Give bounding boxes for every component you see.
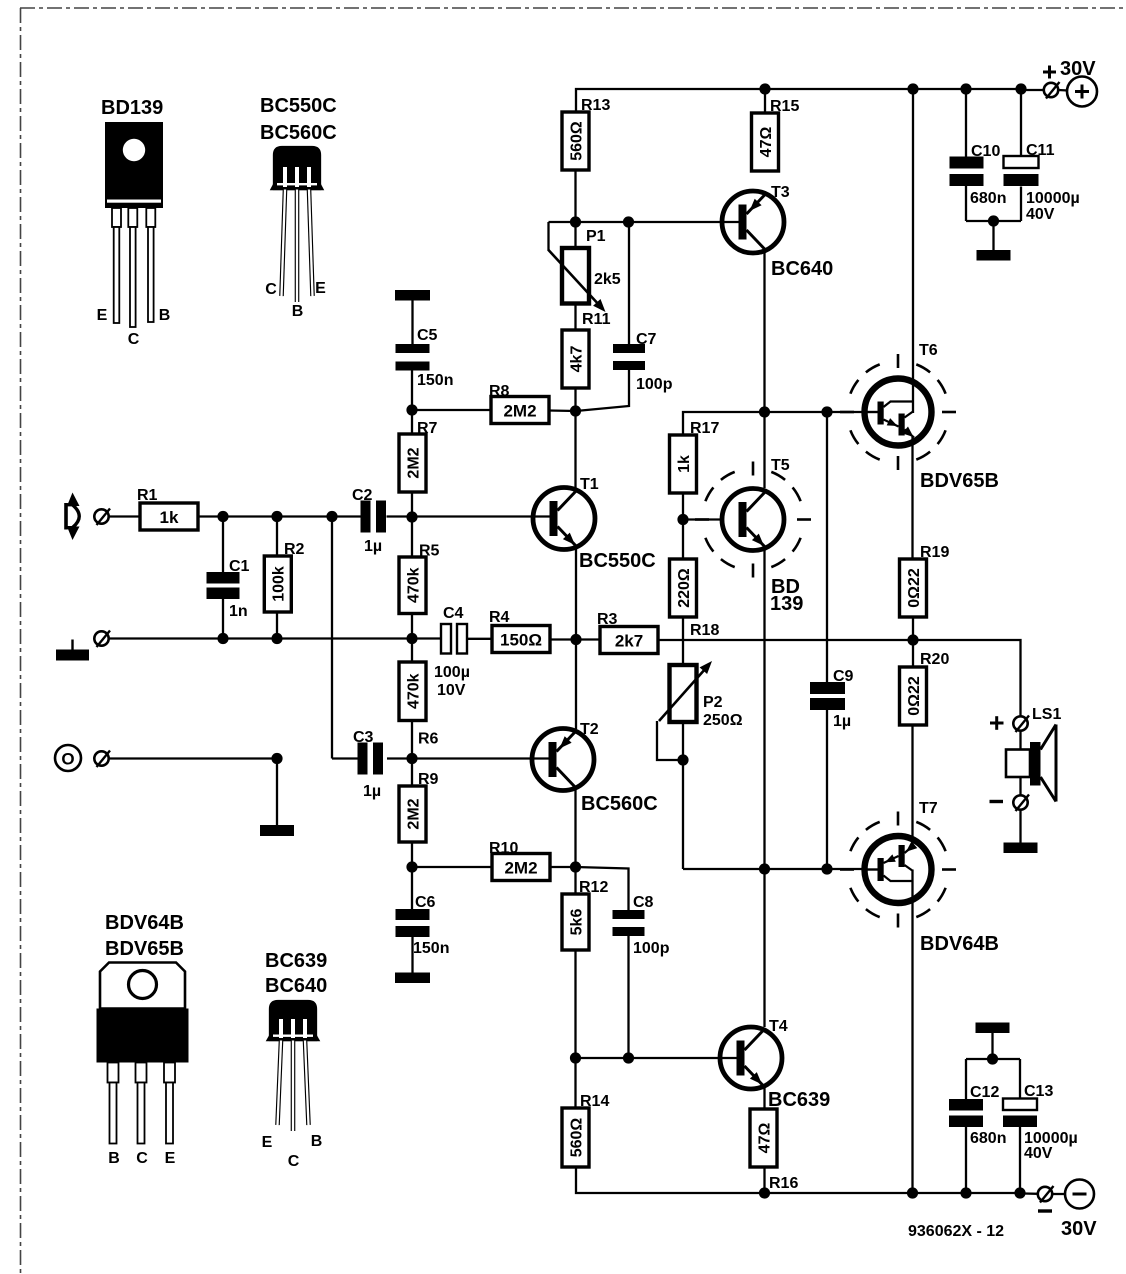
svg-text:936062X - 12: 936062X - 12 bbox=[908, 1223, 1004, 1240]
wire C5 to R7/R8 node bbox=[406, 371, 491, 435]
svg-text:BC640: BC640 bbox=[771, 258, 833, 280]
resistor R11 bbox=[562, 311, 611, 388]
capacitor C5 bbox=[396, 327, 454, 389]
capacitor C13 bbox=[1003, 1083, 1078, 1162]
terminal O output bbox=[94, 751, 110, 768]
svg-text:P2: P2 bbox=[703, 694, 723, 711]
wire R12 to T4 base row bbox=[570, 936, 737, 1108]
ground (O terminal) bbox=[260, 825, 294, 836]
svg-text:R12: R12 bbox=[579, 879, 608, 896]
wire T4 emitter to R16 bbox=[763, 1086, 765, 1109]
svg-text:0Ω22: 0Ω22 bbox=[906, 676, 923, 716]
resistor R2 bbox=[264, 541, 304, 612]
svg-text:C6: C6 bbox=[415, 894, 436, 911]
svg-text:47Ω: 47Ω bbox=[756, 1123, 773, 1154]
trimmer P1 bbox=[549, 228, 621, 312]
BC550C package leg C bbox=[282, 190, 286, 297]
wire R4 to R3 and T1/T2 emitters bbox=[550, 549, 600, 729]
wire O row bbox=[109, 753, 283, 825]
svg-text:5k6: 5k6 bbox=[568, 909, 585, 936]
svg-text:1µ: 1µ bbox=[833, 713, 851, 730]
wire C3 row bbox=[332, 721, 549, 787]
svg-text:B: B bbox=[311, 1133, 323, 1150]
transistor T2 bbox=[532, 721, 658, 815]
BDV64B pin label E bbox=[165, 1150, 176, 1167]
svg-text:560Ω: 560Ω bbox=[568, 121, 585, 161]
label 30V (top) bbox=[1060, 58, 1096, 80]
ground (C10/C11) bbox=[977, 250, 1011, 261]
svg-text:100p: 100p bbox=[636, 376, 673, 393]
capacitor C4 bbox=[434, 605, 470, 699]
BC639 package leg C bbox=[291, 1041, 296, 1132]
resistor R13 bbox=[562, 97, 610, 170]
svg-text:1µ: 1µ bbox=[364, 538, 382, 555]
svg-text:R13: R13 bbox=[581, 97, 610, 114]
svg-text:T1: T1 bbox=[580, 476, 599, 493]
svg-text:BDV65B: BDV65B bbox=[105, 938, 184, 960]
svg-text:T5: T5 bbox=[771, 457, 790, 474]
svg-text:BC639: BC639 bbox=[265, 950, 327, 972]
svg-text:R19: R19 bbox=[920, 544, 949, 561]
wire speaker to - terminal bbox=[1019, 777, 1021, 796]
svg-text:T7: T7 bbox=[919, 800, 938, 817]
wire R7 to T1 base node bbox=[387, 492, 551, 557]
svg-text:BC560C: BC560C bbox=[581, 793, 658, 815]
transistor T3 bbox=[722, 184, 833, 280]
svg-text:BDV65B: BDV65B bbox=[920, 470, 999, 492]
svg-text:220Ω: 220Ω bbox=[676, 568, 693, 608]
wire R13 to P1 node bbox=[549, 170, 740, 251]
svg-text:1µ: 1µ bbox=[363, 783, 381, 800]
BD139 pin label E bbox=[97, 307, 108, 324]
svg-text:10V: 10V bbox=[437, 682, 466, 699]
resistor R5 bbox=[399, 543, 440, 614]
terminal LS1 - bbox=[1013, 795, 1029, 812]
resistor R6 bbox=[399, 662, 439, 748]
svg-text:10000µ: 10000µ bbox=[1026, 190, 1080, 207]
svg-text:E: E bbox=[262, 1134, 273, 1151]
BC550C/BC560C package body bbox=[271, 147, 323, 190]
svg-text:150Ω: 150Ω bbox=[500, 630, 542, 649]
BC560C package title bbox=[260, 122, 337, 144]
battery symbol -30V bbox=[1065, 1180, 1094, 1209]
svg-text:BC550C: BC550C bbox=[260, 95, 337, 117]
BDV64B package leg 1 bbox=[108, 1063, 119, 1144]
svg-text:R7: R7 bbox=[417, 420, 438, 437]
svg-text:C5: C5 bbox=[417, 327, 438, 344]
resistor R14 bbox=[562, 1093, 609, 1167]
svg-text:2M2: 2M2 bbox=[503, 401, 536, 420]
label 936062X - 12 bbox=[908, 1223, 1004, 1240]
BDV64B package leg 3 bbox=[164, 1063, 175, 1144]
terminal input bbox=[94, 509, 110, 526]
svg-text:C8: C8 bbox=[633, 894, 654, 911]
BD139 pin label B bbox=[159, 307, 171, 324]
svg-text:680n: 680n bbox=[970, 1130, 1006, 1147]
svg-text:BC550C: BC550C bbox=[579, 550, 656, 572]
BC550C package leg E bbox=[309, 190, 313, 297]
wire C10/C11 to ground bbox=[966, 186, 1021, 250]
capacitor C2 bbox=[352, 487, 386, 555]
capacitor C7 bbox=[613, 331, 673, 393]
BDV64B package leg 2 bbox=[136, 1063, 147, 1144]
resistor R18 bbox=[670, 559, 720, 639]
svg-text:C12: C12 bbox=[970, 1084, 999, 1101]
resistor R3 bbox=[597, 611, 658, 654]
BC639 pin label E bbox=[262, 1134, 273, 1151]
svg-text:R17: R17 bbox=[690, 420, 719, 437]
wire R19 to R20 bbox=[912, 617, 914, 667]
svg-text:E: E bbox=[165, 1150, 176, 1167]
ground (C5 top) bbox=[395, 290, 430, 344]
transistor T7 (darlington) bbox=[865, 800, 999, 955]
BDV64B pin label C bbox=[136, 1150, 148, 1167]
BD139 package body bbox=[105, 122, 163, 208]
wire output row bbox=[658, 634, 1021, 716]
svg-text:BD139: BD139 bbox=[101, 97, 163, 119]
wire lower base row (T7 base) bbox=[683, 548, 865, 1027]
terminal input ground bbox=[94, 631, 110, 648]
ground (C12/C13) bbox=[976, 1023, 1010, 1060]
svg-text:2M2: 2M2 bbox=[405, 447, 422, 478]
svg-text:C4: C4 bbox=[443, 605, 464, 622]
BC639 package title bbox=[265, 950, 327, 972]
transistor T6 heatsink ring bbox=[840, 354, 956, 470]
BC550C pin label C bbox=[265, 281, 277, 298]
svg-text:T6: T6 bbox=[919, 342, 938, 359]
svg-text:B: B bbox=[292, 303, 304, 320]
svg-text:R6: R6 bbox=[418, 731, 439, 748]
svg-text:BDV64B: BDV64B bbox=[920, 933, 999, 955]
svg-text:2k7: 2k7 bbox=[615, 631, 643, 650]
svg-text:2M2: 2M2 bbox=[405, 798, 422, 829]
wire driver base row (T6 base) bbox=[683, 406, 865, 682]
ground (input) bbox=[56, 640, 89, 661]
BC639 pin label C bbox=[288, 1153, 300, 1170]
svg-text:40V: 40V bbox=[1024, 1145, 1053, 1162]
transistor T5 bbox=[722, 457, 803, 615]
BC639/BC640 package body bbox=[267, 1001, 319, 1041]
label + (LS1) bbox=[990, 716, 1004, 730]
resistor R1 bbox=[137, 487, 198, 530]
svg-text:R20: R20 bbox=[920, 651, 949, 668]
wire C12/C13 top node bbox=[966, 1053, 1020, 1099]
wire +30V rail bbox=[576, 83, 1068, 413]
svg-text:R3: R3 bbox=[597, 611, 618, 628]
BDV65B package title bbox=[105, 938, 184, 960]
wire ground row bbox=[109, 599, 442, 662]
ground (LS1) bbox=[1004, 843, 1038, 854]
capacitor C6 bbox=[396, 894, 450, 957]
svg-text:R14: R14 bbox=[580, 1093, 609, 1110]
wire -30V rail bbox=[576, 870, 1065, 1199]
svg-text:C: C bbox=[136, 1150, 148, 1167]
transistor T1 bbox=[533, 476, 656, 572]
svg-text:139: 139 bbox=[770, 593, 803, 615]
resistor R10 bbox=[489, 840, 550, 881]
wire LS1 - to ground bbox=[1019, 810, 1021, 843]
svg-text:100k: 100k bbox=[271, 566, 288, 602]
svg-text:R2: R2 bbox=[284, 541, 305, 558]
wire C7 column bbox=[576, 222, 629, 411]
svg-text:R15: R15 bbox=[770, 98, 799, 115]
svg-text:250Ω: 250Ω bbox=[703, 712, 743, 729]
svg-text:1n: 1n bbox=[229, 603, 248, 620]
transistor T4 bbox=[720, 1018, 830, 1111]
svg-text:C3: C3 bbox=[353, 729, 374, 746]
svg-text:470k: 470k bbox=[405, 673, 422, 709]
wire R18 to P2 bbox=[682, 617, 684, 665]
BC550C package leg B bbox=[295, 190, 300, 303]
svg-text:R4: R4 bbox=[489, 609, 510, 626]
svg-text:680n: 680n bbox=[970, 190, 1006, 207]
BD139 package title bbox=[101, 97, 163, 119]
wire P1 to R11 bbox=[574, 304, 576, 331]
input arrow symbol bbox=[65, 493, 80, 541]
svg-text:40V: 40V bbox=[1026, 206, 1055, 223]
label - (minus) at -30V bbox=[1038, 1209, 1052, 1212]
capacitor C11 bbox=[1004, 142, 1080, 223]
svg-text:560Ω: 560Ω bbox=[568, 1118, 585, 1158]
svg-text:470k: 470k bbox=[405, 567, 422, 603]
resistor R4 bbox=[489, 609, 550, 653]
resistor R19 bbox=[900, 544, 950, 617]
BD139 package leg 2 bbox=[128, 208, 137, 327]
BC550C package title bbox=[260, 95, 337, 117]
svg-text:BC640: BC640 bbox=[265, 975, 327, 997]
terminal -30V bbox=[1038, 1186, 1054, 1203]
svg-text:47Ω: 47Ω bbox=[758, 127, 775, 158]
svg-text:C: C bbox=[265, 281, 277, 298]
svg-text:B: B bbox=[159, 307, 171, 324]
wire input node bbox=[109, 511, 362, 759]
svg-text:C2: C2 bbox=[352, 487, 373, 504]
svg-text:R18: R18 bbox=[690, 622, 719, 639]
BD139 package leg 1 bbox=[112, 208, 121, 323]
wire R17/T5 base node bbox=[677, 493, 722, 559]
svg-text:C13: C13 bbox=[1024, 1083, 1053, 1100]
resistor R12 bbox=[562, 879, 608, 950]
svg-text:1k: 1k bbox=[676, 455, 693, 473]
svg-text:100µ: 100µ bbox=[434, 664, 470, 681]
transistor T7 heatsink ring bbox=[840, 812, 956, 928]
wire T6 emitter to R19 bbox=[911, 437, 913, 559]
svg-text:4k7: 4k7 bbox=[568, 346, 585, 373]
capacitor C10 bbox=[950, 143, 1007, 207]
BDV64B package title bbox=[105, 912, 184, 934]
svg-text:R11: R11 bbox=[582, 311, 611, 328]
symbol O circle bbox=[55, 745, 81, 771]
label LS1 bbox=[1032, 706, 1061, 723]
BC550C pin label E bbox=[315, 280, 326, 297]
wire T3 collector column bbox=[763, 251, 765, 488]
terminal LS1 + bbox=[1013, 716, 1029, 733]
svg-text:2k5: 2k5 bbox=[594, 271, 621, 288]
capacitor C12 bbox=[949, 1084, 1006, 1147]
BC550C pin label B bbox=[292, 303, 304, 320]
svg-text:C10: C10 bbox=[971, 143, 1000, 160]
BC639 pin label B bbox=[311, 1133, 323, 1150]
svg-text:R8: R8 bbox=[489, 383, 510, 400]
svg-text:C7: C7 bbox=[636, 331, 657, 348]
resistor R9 bbox=[399, 771, 439, 842]
wire P2 wiper node bbox=[657, 721, 689, 869]
svg-text:R16: R16 bbox=[769, 1175, 798, 1192]
svg-text:T2: T2 bbox=[580, 721, 599, 738]
wire LS1 + to speaker bbox=[1019, 731, 1021, 750]
BC639 package leg E bbox=[278, 1041, 282, 1126]
trimmer P2 bbox=[659, 661, 743, 729]
BD139 package leg 3 bbox=[146, 208, 155, 322]
capacitor C9 bbox=[810, 668, 854, 730]
svg-text:R5: R5 bbox=[419, 543, 440, 560]
wire R20 to T7 emitter bbox=[911, 725, 913, 846]
svg-text:2M2: 2M2 bbox=[504, 858, 537, 877]
svg-text:R1: R1 bbox=[137, 487, 158, 504]
svg-text:BC560C: BC560C bbox=[260, 122, 337, 144]
svg-text:O: O bbox=[61, 750, 74, 769]
svg-text:T3: T3 bbox=[771, 184, 790, 201]
resistor R7 bbox=[399, 420, 438, 492]
transistor T5 heatsink ring bbox=[695, 462, 811, 578]
svg-text:0Ω22: 0Ω22 bbox=[906, 568, 923, 608]
terminal +30V bbox=[1044, 82, 1060, 99]
svg-text:C1: C1 bbox=[229, 558, 250, 575]
svg-text:LS1: LS1 bbox=[1032, 706, 1061, 723]
resistor R17 bbox=[670, 420, 720, 493]
wire R8/R11/T1-collector node bbox=[549, 388, 581, 488]
resistor R15 bbox=[752, 98, 800, 171]
wire T2 collector node bbox=[549, 790, 629, 910]
svg-text:C: C bbox=[128, 331, 140, 348]
BC639 package leg B bbox=[305, 1041, 309, 1126]
label + (plus) at +30V bbox=[1043, 66, 1056, 79]
label - (LS1) bbox=[990, 800, 1004, 803]
svg-text:150n: 150n bbox=[417, 372, 453, 389]
svg-text:R9: R9 bbox=[418, 771, 439, 788]
capacitor C3 bbox=[353, 729, 383, 800]
resistor R8 bbox=[489, 383, 549, 424]
svg-text:B: B bbox=[108, 1150, 120, 1167]
svg-text:C11: C11 bbox=[1026, 142, 1055, 159]
svg-text:E: E bbox=[97, 307, 108, 324]
svg-text:C9: C9 bbox=[833, 668, 854, 685]
svg-text:30V: 30V bbox=[1061, 1218, 1097, 1240]
svg-text:BDV64B: BDV64B bbox=[105, 912, 184, 934]
BC640 package title bbox=[265, 975, 327, 997]
svg-text:1k: 1k bbox=[160, 508, 179, 527]
loudspeaker LS1 bbox=[1006, 725, 1056, 802]
svg-text:100p: 100p bbox=[633, 940, 670, 957]
BDV64B pin label B bbox=[108, 1150, 120, 1167]
ground (C6 bottom) bbox=[395, 937, 430, 983]
wire R9/R10/C6 node bbox=[406, 842, 492, 909]
transistor T6 (darlington) bbox=[865, 342, 999, 492]
wire C4 to R4 bbox=[467, 638, 492, 640]
svg-text:C: C bbox=[288, 1153, 300, 1170]
label 30V (bottom) bbox=[1061, 1218, 1097, 1240]
resistor R16 bbox=[750, 1109, 798, 1192]
capacitor C8 bbox=[613, 894, 670, 957]
capacitor C1 bbox=[207, 558, 250, 620]
svg-text:E: E bbox=[315, 280, 326, 297]
resistor R20 bbox=[900, 651, 950, 725]
BDV64B/BDV65B package body bbox=[97, 963, 189, 1063]
svg-text:P1: P1 bbox=[586, 228, 606, 245]
svg-text:R10: R10 bbox=[489, 840, 518, 857]
svg-text:150n: 150n bbox=[413, 940, 449, 957]
battery symbol +30V bbox=[1067, 77, 1097, 107]
svg-text:T4: T4 bbox=[769, 1018, 788, 1035]
BD139 pin label C bbox=[128, 331, 140, 348]
